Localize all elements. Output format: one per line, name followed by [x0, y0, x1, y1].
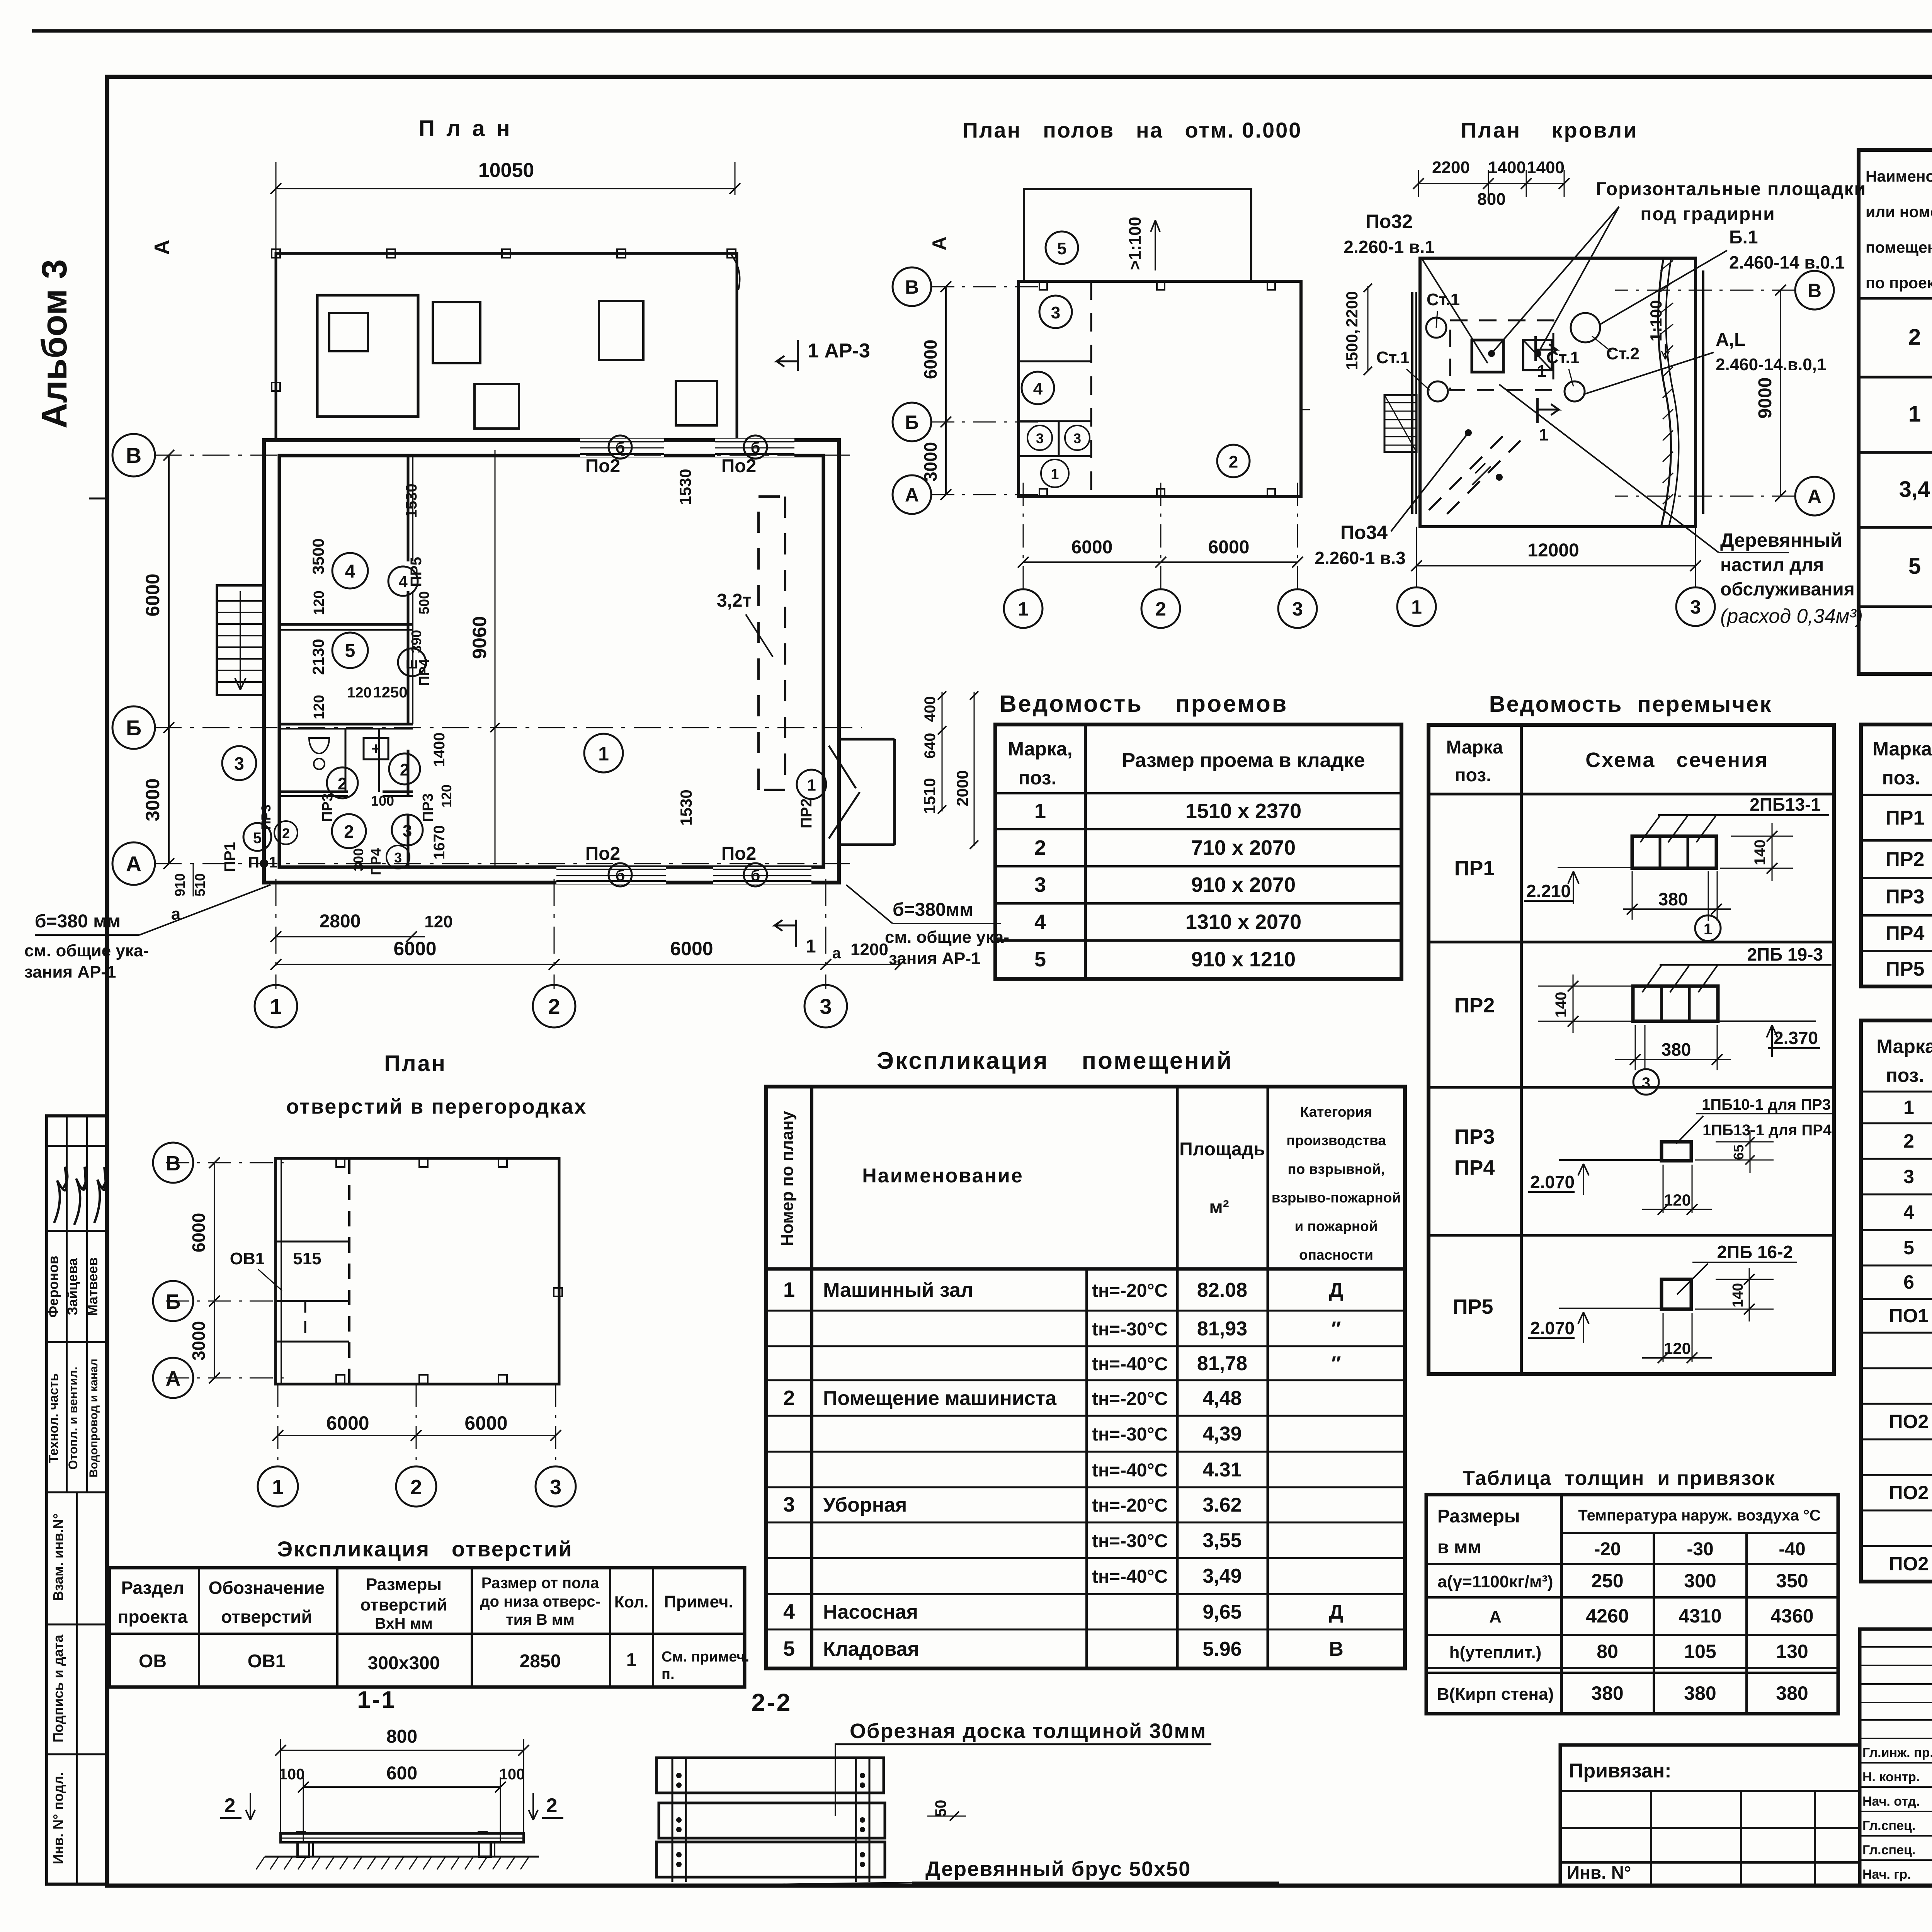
svg-text:Инв. N°: Инв. N°	[1567, 1862, 1631, 1883]
outdoor stair left	[217, 585, 264, 695]
svg-text:зания АР-1: зания АР-1	[24, 963, 116, 981]
svg-text:зания АР-1: зания АР-1	[889, 949, 981, 968]
svg-text:2-2: 2-2	[752, 1689, 792, 1716]
svg-text:380: 380	[1684, 1682, 1716, 1704]
svg-text:2.070: 2.070	[1530, 1318, 1575, 1338]
svg-text:ВхН мм: ВхН мм	[375, 1615, 433, 1632]
svg-text:поз.: поз.	[1019, 767, 1057, 789]
svg-text:″: ″	[1332, 1352, 1341, 1375]
svg-text:ПР1: ПР1	[221, 842, 238, 872]
svg-text:Ведомость проемов: Ведомость проемов	[1000, 690, 1288, 717]
svg-text:Категория: Категория	[1300, 1104, 1372, 1120]
svg-text:ПР5: ПР5	[408, 557, 425, 587]
svg-text:ПР2: ПР2	[798, 798, 815, 828]
svg-text:3: 3	[1690, 596, 1701, 618]
svg-text:ПР4: ПР4	[1886, 922, 1925, 945]
svg-text:в мм: в мм	[1437, 1537, 1481, 1558]
svg-text:б: б	[751, 439, 760, 456]
svg-text:82.08: 82.08	[1197, 1279, 1247, 1301]
svg-text:Взам. инв.N°: Взам. инв.N°	[50, 1514, 66, 1601]
svg-text:2200: 2200	[1432, 158, 1470, 177]
svg-text:5.96: 5.96	[1202, 1638, 1242, 1660]
entrance porch right	[839, 738, 895, 741]
svg-text:1: 1	[626, 1650, 637, 1670]
svg-text:3: 3	[403, 821, 412, 840]
svg-text:3: 3	[1292, 598, 1303, 620]
svg-text:По2: По2	[721, 844, 757, 864]
svg-text:4310: 4310	[1679, 1605, 1721, 1627]
svg-text:производства: производства	[1286, 1133, 1386, 1148]
svg-text:ПР5: ПР5	[1453, 1295, 1493, 1318]
svg-text:1500,: 1500,	[1343, 329, 1361, 370]
dashed platform on roof	[1450, 320, 1553, 390]
svg-text:12000: 12000	[1527, 540, 1579, 561]
svg-text:6000: 6000	[670, 938, 713, 959]
svg-text:100: 100	[371, 793, 394, 809]
svg-text:2ПБ 16-2: 2ПБ 16-2	[1717, 1242, 1793, 1262]
svg-text:А: А	[1489, 1607, 1502, 1626]
svg-text:А: А	[166, 1367, 181, 1390]
svg-text:опасности: опасности	[1299, 1247, 1373, 1263]
svg-text:1: 1	[807, 776, 816, 794]
svg-text:300: 300	[1684, 1570, 1716, 1592]
svg-text:2: 2	[1034, 836, 1046, 859]
svg-text:100: 100	[279, 1766, 305, 1783]
svg-text:910 x 1210: 910 x 1210	[1191, 948, 1296, 971]
svg-text:1: 1	[270, 994, 282, 1019]
svg-text:6000: 6000	[142, 573, 163, 616]
svg-text:4.31: 4.31	[1202, 1459, 1242, 1481]
svg-text:9000: 9000	[1755, 378, 1776, 419]
window openings bottom wall	[556, 867, 666, 884]
svg-text:Марка: Марка	[1446, 737, 1503, 758]
roof outline	[1420, 258, 1696, 527]
svg-text:5: 5	[253, 830, 262, 847]
svg-text:В: В	[126, 443, 141, 468]
svg-text:По2: По2	[721, 456, 757, 476]
svg-text:2850: 2850	[520, 1651, 561, 1672]
svg-text:ПР4: ПР4	[368, 848, 384, 875]
svg-text:б: б	[751, 867, 760, 884]
svg-text:ПР3: ПР3	[1454, 1125, 1495, 1148]
svg-text:tн=-20°С: tн=-20°С	[1092, 1281, 1168, 1301]
svg-text:910 x 2070: 910 x 2070	[1191, 873, 1296, 896]
svg-text:2: 2	[1229, 452, 1238, 471]
svg-text:Матвеев: Матвеев	[85, 1257, 100, 1316]
svg-text:4: 4	[345, 561, 355, 582]
svg-text:300х300: 300х300	[368, 1653, 440, 1673]
svg-text:4: 4	[1903, 1201, 1914, 1223]
svg-text:4: 4	[1033, 379, 1043, 398]
svg-text:9,65: 9,65	[1202, 1601, 1242, 1623]
svg-text:Б: Б	[905, 412, 919, 433]
svg-text:ПР3: ПР3	[259, 804, 274, 830]
svg-text:tн=-40°С: tн=-40°С	[1092, 1566, 1168, 1587]
sketch PR2: three lintel blocks 2PB19-3	[1633, 986, 1718, 1021]
svg-text:2.210: 2.210	[1526, 881, 1571, 901]
svg-text:Б: Б	[166, 1290, 181, 1313]
left stamp strip table	[47, 1116, 107, 1884]
dims polov	[945, 287, 947, 495]
svg-text:400: 400	[922, 696, 939, 722]
axis circles for otverstiya plan	[153, 1143, 193, 1183]
svg-text:710 x 2070: 710 x 2070	[1191, 836, 1296, 859]
svg-text:По2: По2	[585, 456, 621, 476]
svg-text:105: 105	[1684, 1641, 1716, 1662]
svg-text:А: А	[929, 236, 950, 250]
roof stairs	[1384, 395, 1417, 452]
svg-text:По2: По2	[585, 844, 621, 864]
title block: privyazan box	[1560, 1745, 1860, 1886]
svg-text:или номер: или номер	[1866, 203, 1932, 221]
svg-text:250: 250	[1591, 1570, 1623, 1592]
svg-text:Таблица толщин и привязок: Таблица толщин и привязок	[1463, 1467, 1776, 1490]
svg-text:Ст.1: Ст.1	[1376, 348, 1410, 367]
svg-text:ПО2: ПО2	[1889, 1482, 1929, 1503]
svg-text:Н. контр.: Н. контр.	[1862, 1770, 1920, 1784]
svg-text:ПР2: ПР2	[1454, 994, 1495, 1017]
svg-text:380: 380	[1776, 1682, 1808, 1704]
svg-text:1510 x 2370: 1510 x 2370	[1185, 799, 1301, 823]
svg-text:1: 1	[783, 1278, 795, 1301]
svg-text:1: 1	[272, 1476, 284, 1499]
diag dashed lines lower left roof	[1429, 430, 1509, 510]
wall square markers otverstiya plan	[336, 1158, 345, 1167]
svg-text:см. общие ука-: см. общие ука-	[24, 941, 149, 960]
svg-text:Насосная: Насосная	[823, 1601, 918, 1623]
svg-text:6000: 6000	[1208, 537, 1250, 558]
sketch PR5: single block 2PB16-2	[1662, 1279, 1691, 1309]
vertical dims 6000 3000	[168, 455, 170, 864]
svg-text:Помещение машиниста: Помещение машиниста	[823, 1387, 1057, 1410]
svg-text:80: 80	[1597, 1641, 1618, 1662]
svg-text:65: 65	[1731, 1145, 1747, 1160]
svg-text:-30: -30	[1687, 1539, 1713, 1560]
svg-text:2.260-1 в.3: 2.260-1 в.3	[1315, 548, 1405, 568]
svg-text:4260: 4260	[1586, 1605, 1629, 1627]
svg-text:Номер по плану: Номер по плану	[778, 1111, 797, 1246]
svg-text:ПР4: ПР4	[1454, 1156, 1495, 1179]
section mark 1 AR-3	[797, 340, 799, 371]
svg-text:9060: 9060	[469, 616, 490, 659]
svg-text:ОВ: ОВ	[139, 1651, 167, 1672]
svg-text:1: 1	[598, 743, 609, 765]
svg-text:По34: По34	[1340, 522, 1388, 543]
svg-text:В: В	[905, 276, 919, 298]
svg-text:3000: 3000	[920, 442, 940, 481]
12000 dim	[1417, 565, 1696, 566]
svg-text:1: 1	[1903, 1097, 1914, 1118]
svg-text:по взрывной,: по взрывной,	[1287, 1161, 1384, 1177]
svg-text:б: б	[616, 867, 625, 884]
svg-text:отверстий: отверстий	[221, 1607, 312, 1627]
svg-text:5: 5	[1057, 239, 1066, 258]
svg-text:б=380 мм: б=380 мм	[35, 911, 121, 932]
svg-text:Д: Д	[1329, 1601, 1343, 1623]
svg-text:4360: 4360	[1770, 1605, 1813, 1627]
svg-text:tн=-30°С: tн=-30°С	[1092, 1531, 1168, 1551]
svg-text:м²: м²	[1209, 1197, 1229, 1218]
svg-text:Марка,: Марка,	[1008, 738, 1072, 760]
svg-text:2: 2	[400, 760, 409, 779]
svg-text:3: 3	[550, 1476, 561, 1499]
svg-text:120: 120	[347, 685, 371, 701]
svg-text:380: 380	[1591, 1682, 1623, 1704]
svg-text:2: 2	[548, 994, 560, 1019]
svg-text:Деревянный: Деревянный	[1720, 529, 1842, 551]
svg-text:Привязан:: Привязан:	[1569, 1760, 1672, 1782]
bottom dims 2800 120 6000 6000 1200	[276, 936, 425, 937]
svg-text:2: 2	[1155, 598, 1166, 620]
svg-text:и пожарной: и пожарной	[1294, 1218, 1378, 1234]
svg-text:Размер от пола: Размер от пола	[481, 1575, 599, 1592]
svg-text:В(Кирп стена): В(Кирп стена)	[1437, 1685, 1554, 1704]
equipment platform above building	[276, 253, 737, 440]
svg-text:1200: 1200	[850, 940, 888, 959]
svg-text:поз.: поз.	[1882, 767, 1920, 789]
svg-text:Б.1: Б.1	[1729, 227, 1758, 248]
svg-text:1530: 1530	[677, 789, 695, 825]
svg-text:120: 120	[424, 912, 452, 931]
svg-text:Экспликация отверстий: Экспликация отверстий	[277, 1537, 573, 1561]
sketch PR3 PR4: single block	[1662, 1142, 1691, 1161]
svg-text:800: 800	[1477, 190, 1505, 209]
9000 dim	[1780, 290, 1781, 496]
svg-text:Обрезная доска толщиной 30мм: Обрезная доска толщиной 30мм	[850, 1719, 1206, 1743]
svg-text:Подпись и дата: Подпись и дата	[50, 1634, 66, 1743]
svg-text:120: 120	[311, 590, 327, 615]
title block: signature table	[1860, 1629, 1932, 1886]
sketch PR1: three lintel blocks 2PB13-1	[1632, 836, 1716, 868]
svg-text:ПР3: ПР3	[420, 793, 436, 822]
svg-text:Гл.спец.: Гл.спец.	[1862, 1818, 1915, 1833]
svg-text:6000: 6000	[920, 340, 940, 379]
svg-text:3: 3	[234, 753, 244, 774]
svg-text:1250: 1250	[373, 684, 408, 701]
annex rectangle room 5	[1024, 189, 1251, 281]
svg-text:3,2т: 3,2т	[717, 590, 752, 611]
svg-text:1ПБ13-1 для ПР4: 1ПБ13-1 для ПР4	[1702, 1122, 1832, 1139]
svg-text:По32: По32	[1366, 211, 1413, 232]
svg-text:ПР2: ПР2	[1886, 848, 1925, 871]
svg-text:600: 600	[386, 1763, 417, 1784]
svg-text:3500: 3500	[309, 538, 327, 574]
svg-text:Инв. N° подл.: Инв. N° подл.	[50, 1772, 66, 1864]
svg-text:3000: 3000	[189, 1321, 209, 1361]
svg-text:По1: По1	[248, 854, 277, 871]
roof axis circles	[1795, 271, 1834, 310]
svg-text:Уборная: Уборная	[823, 1494, 907, 1516]
svg-text:3: 3	[1642, 1075, 1650, 1092]
svg-text:300: 300	[350, 848, 366, 871]
svg-text:А: А	[1808, 486, 1821, 507]
svg-text:Наименование: Наименование	[862, 1165, 1024, 1187]
svg-text:3: 3	[783, 1493, 795, 1516]
svg-text:1510: 1510	[920, 778, 939, 814]
axis dash-dot lines main plan	[155, 455, 850, 456]
svg-text:Нач. отд.: Нач. отд.	[1862, 1794, 1920, 1809]
svg-text:1400: 1400	[1488, 158, 1526, 177]
svg-text:Водопровод и канал: Водопровод и канал	[87, 1359, 100, 1477]
svg-text:50: 50	[932, 1800, 949, 1817]
svg-text:Ст.1: Ст.1	[1546, 348, 1580, 367]
svg-text:1400: 1400	[1527, 158, 1565, 177]
svg-text:Кол.: Кол.	[614, 1593, 649, 1611]
svg-text:a: a	[832, 945, 841, 962]
svg-text:ПО1: ПО1	[1889, 1305, 1929, 1327]
svg-text:640: 640	[922, 733, 939, 759]
svg-text:1: 1	[806, 936, 816, 957]
sheet outer top border line	[32, 29, 1932, 33]
building outer walls	[264, 440, 839, 883]
roof drains circles	[1426, 318, 1446, 338]
svg-text:проекта: проекта	[118, 1607, 188, 1627]
svg-text:Кладовая: Кладовая	[823, 1638, 919, 1660]
svg-text:См. примеч.: См. примеч.	[662, 1649, 749, 1665]
svg-text:1:100: 1:100	[1647, 300, 1665, 341]
crane dashed outline 3.2t	[759, 495, 785, 498]
svg-text:Ст.1: Ст.1	[1427, 290, 1460, 309]
svg-text:ПР3: ПР3	[320, 793, 336, 822]
svg-text:б=380мм: б=380мм	[893, 900, 973, 920]
svg-text:-20: -20	[1594, 1539, 1621, 1560]
svg-text:4: 4	[1034, 910, 1046, 934]
svg-text:140: 140	[1553, 992, 1570, 1018]
svg-text:510: 510	[192, 873, 208, 896]
svg-text:Нач. гр.: Нач. гр.	[1862, 1867, 1911, 1882]
svg-text:1: 1	[1018, 598, 1029, 620]
svg-text:2: 2	[224, 1794, 236, 1817]
svg-text:План: План	[384, 1051, 447, 1076]
svg-text:ПР1: ПР1	[1454, 857, 1495, 880]
svg-text:6000: 6000	[1071, 537, 1113, 558]
svg-text:ПР4: ПР4	[416, 659, 432, 686]
svg-text:3.62: 3.62	[1202, 1494, 1242, 1516]
svg-text:ПО2: ПО2	[1889, 1411, 1929, 1432]
svg-text:+: +	[371, 739, 381, 758]
svg-text:500: 500	[416, 591, 432, 614]
svg-text:2: 2	[344, 821, 354, 842]
svg-text:a(γ=1100кг/м³): a(γ=1100кг/м³)	[1437, 1572, 1553, 1591]
svg-text:2000: 2000	[953, 770, 971, 806]
svg-text:Альбом 3: Альбом 3	[35, 259, 74, 429]
svg-text:2: 2	[1908, 325, 1921, 350]
svg-text:ПО2: ПО2	[1889, 1553, 1929, 1575]
axis circles polov	[893, 267, 931, 306]
svg-text:П л а н: П л а н	[418, 116, 512, 141]
svg-text:3000: 3000	[142, 778, 163, 821]
svg-text:А,L: А,L	[1716, 330, 1745, 350]
svg-text:3: 3	[1903, 1166, 1914, 1187]
svg-text:А: А	[126, 852, 141, 876]
svg-text:Феронов: Феронов	[45, 1256, 61, 1318]
equipment rectangles	[317, 295, 418, 417]
svg-text:2: 2	[546, 1794, 558, 1817]
svg-text:Зайцева: Зайцева	[65, 1258, 80, 1316]
svg-text:2200: 2200	[1343, 291, 1361, 327]
svg-text:1530: 1530	[676, 469, 694, 505]
svg-text:2.460-14 в.0.1: 2.460-14 в.0.1	[1729, 252, 1845, 272]
svg-text:Размер проема в кладке: Размер проема в кладке	[1122, 749, 1365, 772]
svg-text:515: 515	[293, 1249, 321, 1268]
svg-text:3: 3	[1036, 430, 1044, 446]
svg-text:2: 2	[783, 1386, 795, 1410]
svg-text:tн=-20°С: tн=-20°С	[1092, 1495, 1168, 1516]
svg-text:б: б	[616, 439, 625, 456]
room circles polov	[1046, 231, 1078, 264]
svg-text:1 АР-3: 1 АР-3	[808, 340, 870, 362]
svg-text:Ведомость перемычек: Ведомость перемычек	[1489, 692, 1772, 717]
svg-text:2130: 2130	[309, 639, 327, 675]
svg-text:″: ″	[1332, 1318, 1341, 1340]
svg-text:1: 1	[1051, 466, 1059, 483]
svg-text:6000: 6000	[393, 938, 436, 959]
svg-text:отверстий: отверстий	[360, 1595, 447, 1614]
svg-text:3: 3	[1051, 303, 1060, 322]
svg-text:Примеч.: Примеч.	[664, 1592, 733, 1611]
svg-text:800: 800	[386, 1726, 417, 1747]
svg-text:3: 3	[394, 850, 402, 866]
svg-text:2.260-1 в.1: 2.260-1 в.1	[1344, 237, 1434, 257]
svg-text:до низа отверс-: до низа отверс-	[480, 1593, 600, 1610]
svg-text:План кровли: План кровли	[1461, 118, 1638, 142]
svg-text:Отопл. и вентил.: Отопл. и вентил.	[66, 1367, 80, 1470]
svg-text:1-1: 1-1	[357, 1687, 396, 1713]
svg-text:910: 910	[172, 873, 188, 896]
svg-text:Схема сечения: Схема сечения	[1585, 748, 1769, 772]
svg-text:120: 120	[1664, 1339, 1691, 1357]
svg-text:А: А	[150, 240, 173, 255]
svg-text:Горизонтальные площадки: Горизонтальные площадки	[1596, 179, 1866, 199]
fold marks	[89, 498, 107, 500]
svg-text:350: 350	[1776, 1570, 1808, 1592]
svg-text:2.460-14.в.0,1: 2.460-14.в.0,1	[1716, 355, 1826, 374]
svg-text:Размеры: Размеры	[1437, 1506, 1520, 1527]
svg-text:tн=-40°С: tн=-40°С	[1092, 1354, 1168, 1374]
svg-text:tн=-40°С: tн=-40°С	[1092, 1460, 1168, 1481]
svg-text:1: 1	[1539, 425, 1548, 444]
svg-text:Обозначение: Обозначение	[209, 1578, 325, 1598]
svg-text:ПР5: ПР5	[1886, 958, 1925, 980]
section marks roof	[1534, 336, 1537, 361]
svg-text:Температура наруж. воздуха °С: Температура наруж. воздуха °С	[1578, 1507, 1821, 1524]
svg-text:Деревянный брус 50х50: Деревянный брус 50х50	[925, 1857, 1191, 1881]
svg-text:Д: Д	[1329, 1279, 1343, 1301]
svg-text:под градирни: под градирни	[1640, 204, 1775, 224]
svg-text:помещения: помещения	[1866, 238, 1932, 256]
svg-text:120: 120	[1664, 1191, 1691, 1209]
svg-text:3: 3	[1073, 430, 1081, 446]
svg-text:2.370: 2.370	[1774, 1028, 1818, 1048]
svg-text:Технол. часть: Технол. часть	[46, 1373, 61, 1463]
svg-text:4,48: 4,48	[1202, 1387, 1242, 1410]
floor plan rectangle	[1019, 281, 1301, 497]
svg-text:взрыво-пожарной: взрыво-пожарной	[1272, 1190, 1401, 1206]
svg-text:обслуживания: обслуживания	[1720, 579, 1855, 600]
svg-text:1310 x 2070: 1310 x 2070	[1185, 910, 1301, 934]
svg-text:Раздел: Раздел	[121, 1578, 184, 1598]
svg-text:тия В мм: тия В мм	[506, 1611, 575, 1628]
svg-text:Гл.инж. пр.: Гл.инж. пр.	[1862, 1745, 1932, 1760]
svg-text:120: 120	[439, 784, 454, 808]
svg-text:Площадь: Площадь	[1179, 1139, 1265, 1160]
svg-text:1400: 1400	[431, 733, 448, 767]
svg-text:см. общие ука-: см. общие ука-	[885, 928, 1009, 947]
svg-text:4: 4	[398, 573, 408, 591]
svg-text:10050: 10050	[478, 159, 534, 182]
svg-text:h(утеплит.): h(утеплит.)	[1449, 1643, 1542, 1662]
wall markers polov	[1039, 282, 1047, 290]
